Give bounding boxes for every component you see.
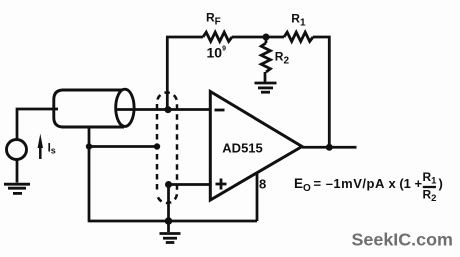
label R2: [275, 49, 290, 66]
node junction output: [326, 144, 333, 151]
node junction bottom ground: [165, 217, 173, 225]
wire between RF and node: [232, 36, 268, 39]
node junction top: [263, 34, 270, 41]
guard ring dashed: [157, 93, 177, 204]
current source Is: [7, 134, 56, 160]
ground under current source: [4, 184, 30, 193]
wire R2 to ground: [264, 72, 267, 82]
node junction plus input: [165, 181, 172, 188]
wire cable shield down: [88, 127, 91, 147]
wire shield node down to bottom: [88, 147, 91, 223]
svg-text:= –1mV/pA: = –1mV/pA: [314, 176, 385, 191]
wire pin 8: [256, 173, 259, 221]
op-amp U1 AD515: [210, 92, 302, 201]
wire current source up and to cable: [17, 109, 58, 140]
svg-text:SeekIC.com: SeekIC.com: [352, 230, 453, 250]
wire current source to ground: [16, 159, 19, 182]
wire bottom horizontal: [89, 220, 257, 223]
svg-text:x (1 +: x (1 +: [389, 176, 423, 191]
value 10^9: [207, 45, 227, 61]
node junction minus/feedback: [165, 106, 172, 113]
ground under R2: [255, 83, 277, 92]
wire top horizontal left of RF: [166, 36, 203, 39]
equation EO: [294, 170, 443, 204]
svg-text:): ): [439, 176, 443, 191]
wire between node and R1: [266, 36, 284, 39]
svg-text:AD515: AD515: [222, 141, 262, 156]
label RF: [206, 11, 221, 28]
wire R2 top stub: [265, 37, 268, 43]
wire plus input: [169, 183, 211, 186]
wire shield to guard: [89, 145, 157, 148]
wire output: [302, 146, 357, 149]
wire R1 to right corner and down to output: [313, 37, 330, 147]
coax cable shield: [54, 89, 134, 127]
node junction shield: [86, 143, 92, 149]
resistor RF: [203, 32, 232, 41]
svg-text:8: 8: [259, 176, 266, 191]
ground bottom: [160, 221, 181, 243]
watermark SeekIC.com: [352, 230, 453, 250]
pin 8 label: [259, 176, 266, 191]
wire top feedback left vertical: [166, 37, 169, 110]
resistor R1: [284, 32, 313, 41]
node junction on guard: [154, 143, 160, 149]
wire center conductor to op-amp minus input: [115, 108, 211, 111]
resistor R2: [261, 43, 270, 72]
wire guard node down: [167, 185, 170, 222]
label R1: [291, 11, 306, 28]
